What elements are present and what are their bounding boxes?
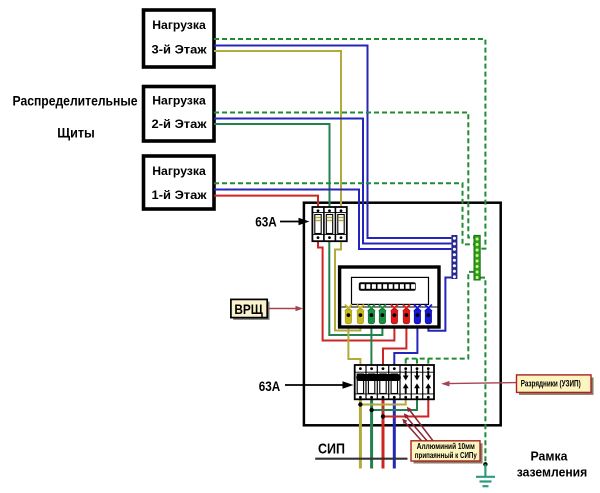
wire PE 1st floor dashed green: box3 to PE block left side	[214, 183, 474, 244]
load box 3rd floor	[144, 10, 215, 67]
wire PE block to earth dashed green	[480, 278, 485, 465]
wire red jumper to surge arrester 3 bottom	[383, 398, 428, 417]
wire yellow meter terminal 1 to main breaker pole1 top	[348, 316, 360, 369]
svg-text:3-й Этаж: 3-й Этаж	[152, 43, 208, 57]
wire N 1st floor blue: box3 to N busbar	[214, 190, 451, 250]
wire green CB1 pole2 bottom to meter terminal 4	[329, 238, 382, 335]
svg-text:Рамка: Рамка	[531, 450, 569, 464]
meter terminal 1 yellow	[345, 305, 352, 324]
meter terminal 2 yellow	[357, 305, 364, 324]
junction dot green jumper	[369, 408, 373, 412]
wire N 3rd floor blue: box1 to N busbar	[214, 46, 451, 239]
circuit breaker CB1 63A three pole distribution	[312, 207, 346, 241]
svg-text:заземления: заземления	[517, 466, 588, 480]
main breaker CB2 63A four pole and surge arresters row	[355, 365, 434, 399]
meter terminal 7 blue	[414, 305, 421, 324]
surge arrester F1 arrows	[403, 371, 409, 394]
wire PE 2nd floor dashed green: box2 to PE block top left	[214, 113, 474, 238]
svg-text:2-й Этаж: 2-й Этаж	[152, 117, 208, 131]
wire blue meter terminal 8 to N busbar	[428, 278, 451, 331]
PE busbar green	[474, 235, 480, 280]
svg-text:Нагрузка: Нагрузка	[152, 94, 206, 108]
svg-text:1-й Этаж: 1-й Этаж	[152, 188, 208, 202]
wire SIP neutral blue drop	[393, 398, 396, 469]
svg-text:Нагрузка: Нагрузка	[152, 164, 206, 178]
svg-text:Щиты: Щиты	[57, 125, 95, 141]
meter terminal 5 red	[391, 305, 398, 324]
N busbar blue	[451, 235, 457, 279]
meter terminal 4 green	[379, 305, 386, 324]
wire red CB1 pole1 bottom to meter terminal 5	[318, 238, 394, 341]
wire L1 3rd floor yellow: box1 to CB1 pole3 top	[214, 51, 341, 211]
junction dot yellow jumper	[358, 402, 362, 406]
svg-text:Нагрузка: Нагрузка	[152, 18, 206, 32]
wire green jumper to surge arrester 2 bottom	[372, 398, 417, 410]
wire L2 2nd floor green: box2 to CB1 pole2 top	[214, 124, 330, 211]
junction dot red jumper	[381, 414, 385, 418]
label ВРЩ with arrow	[231, 299, 303, 319]
wire PE 3rd floor dashed green: box1 to PE block right side	[214, 39, 485, 249]
wire SIP phase C red drop	[382, 398, 385, 469]
svg-text:63А: 63А	[259, 378, 281, 394]
surge arrester F3 arrows	[425, 371, 431, 394]
junction dot earth conductor	[483, 462, 487, 466]
wire N 2nd floor blue: box2 to N busbar	[214, 119, 451, 244]
wire SIP phase B green drop	[370, 398, 373, 469]
label 63A distribution breaker with arrow	[255, 214, 309, 230]
svg-text:63А: 63А	[255, 214, 277, 230]
meter terminal 3 green	[368, 305, 375, 324]
svg-text:Разрядники (УЗИП): Разрядники (УЗИП)	[521, 378, 581, 388]
surge arrester F2 arrows	[414, 371, 420, 394]
wire yellow CB1 pole3 bottom to meter terminal 2	[335, 238, 360, 331]
wire red meter terminal 6 to main breaker pole3 top	[383, 316, 406, 369]
CB2 handle tie bar	[356, 374, 401, 381]
label Аллюминий 10мм припаянный к СИПу with arrows	[402, 407, 482, 464]
meter terminal 6 red	[403, 305, 410, 324]
earth ground symbol	[476, 464, 495, 486]
label СИП with service drop line	[315, 441, 407, 459]
label Разрядники УЗИП with arrow	[441, 375, 594, 395]
svg-text:припаянный к СИПу: припаянный к СИПу	[415, 450, 477, 460]
meter terminal 8 blue	[425, 305, 432, 324]
wire SIP phase A yellow drop	[359, 398, 362, 469]
label 63A main breaker with arrow	[259, 378, 354, 394]
svg-text:ВРЩ: ВРЩ	[234, 301, 263, 317]
load box 1st floor	[144, 156, 215, 209]
svg-text:Распределительные: Распределительные	[13, 93, 138, 109]
wire PE block to surge arrester tops dashed green	[406, 272, 474, 366]
load box 2nd floor	[144, 87, 215, 142]
electricity meter	[340, 267, 439, 327]
wire blue meter terminal 7 to main breaker pole4 top	[394, 316, 417, 369]
label Рамка заземления	[517, 450, 588, 480]
wire L3 1st floor red: box3 to CB1 pole1 top	[214, 196, 318, 211]
enclosure panel ВРЩ outline	[304, 203, 501, 426]
label Распределительные Щиты	[13, 93, 138, 141]
wire yellow jumper to surge arrester 1 bottom	[360, 398, 405, 405]
wire green meter terminal 3 to main breaker pole2 top	[370, 316, 372, 369]
svg-text:СИП: СИП	[318, 441, 345, 458]
